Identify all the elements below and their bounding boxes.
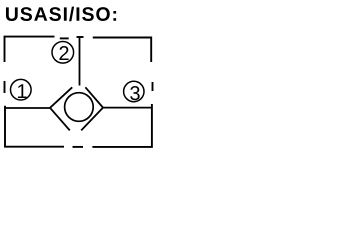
wire port 2	[79, 37, 81, 86]
wire port 3	[103, 107, 152, 109]
seat line lower-left	[50, 108, 70, 131]
enclosure dashed box: top edge left segment	[5, 37, 55, 62]
enclosure dashed box: bottom edge short dash	[73, 146, 84, 148]
wire port 1	[5, 107, 50, 109]
port 1 circled number	[10, 79, 31, 100]
enclosure dashed box: right edge middle dash	[152, 82, 154, 91]
port 3 circled number	[124, 81, 144, 101]
enclosure dashed box: left edge middle dash	[4, 81, 6, 93]
enclosure dashed box: bottom edge right segment with bottom-right corner	[92, 104, 151, 147]
shuttle valve ball	[65, 93, 94, 122]
seat line upper-left	[50, 87, 72, 108]
seat line upper-right	[85, 87, 103, 107]
enclosure dashed box: top edge short dash	[60, 37, 69, 39]
seat line lower-right	[81, 108, 103, 131]
port 2 circled number	[52, 42, 74, 64]
port 2 digit	[59, 46, 68, 60]
port 3 digit	[130, 86, 139, 100]
port 1 digit	[18, 84, 27, 98]
enclosure dashed box: top edge tick over port 2 line	[77, 36, 84, 38]
enclosure dashed box: left edge lower segment with bottom-left corner	[5, 106, 64, 147]
enclosure dashed box: top edge right segment with corner	[93, 38, 151, 63]
label USASI/ISO:	[6, 7, 116, 22]
